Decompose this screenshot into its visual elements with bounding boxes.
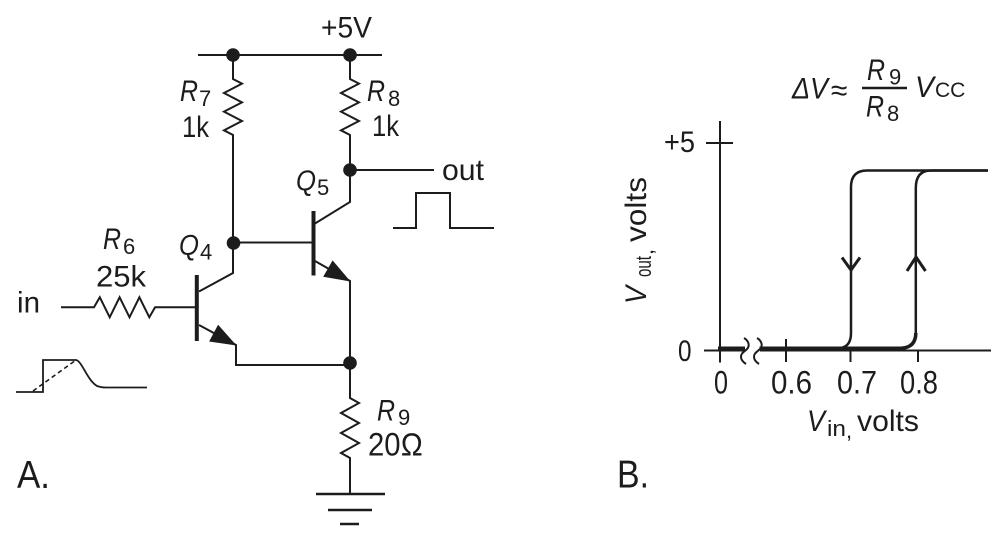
- svg-text:CC: CC: [935, 79, 965, 102]
- svg-text:20Ω: 20Ω: [368, 427, 423, 463]
- svg-text:7: 7: [199, 86, 211, 111]
- svg-text:volts: volts: [620, 177, 653, 242]
- svg-text:0: 0: [714, 365, 728, 401]
- svg-text:V: V: [620, 283, 653, 304]
- svg-text:Q: Q: [179, 230, 199, 262]
- svg-text:out: out: [631, 256, 656, 277]
- svg-text:5: 5: [317, 175, 329, 200]
- svg-text:1k: 1k: [182, 111, 210, 144]
- svg-text:1k: 1k: [372, 110, 400, 143]
- svg-text:R: R: [377, 395, 395, 428]
- svg-text:,: ,: [633, 249, 658, 255]
- svg-text:Q: Q: [296, 166, 316, 198]
- svg-text:0.7: 0.7: [837, 365, 877, 401]
- svg-text:in: in: [827, 416, 846, 441]
- svg-text:V: V: [915, 71, 937, 104]
- svg-text:0: 0: [678, 335, 692, 368]
- svg-text:ΔV: ΔV: [791, 73, 831, 106]
- svg-text:4: 4: [200, 240, 212, 265]
- svg-text:8: 8: [887, 101, 899, 126]
- svg-text:0.6: 0.6: [771, 365, 812, 401]
- svg-text:A.: A.: [17, 454, 50, 497]
- svg-text:,: ,: [846, 418, 852, 443]
- svg-text:R: R: [103, 223, 121, 256]
- svg-text:9: 9: [889, 65, 901, 90]
- svg-text:V: V: [807, 405, 828, 438]
- svg-text:out: out: [442, 154, 485, 187]
- svg-text:R: R: [867, 54, 885, 87]
- svg-text:8: 8: [388, 86, 400, 111]
- svg-text:volts: volts: [857, 405, 919, 438]
- svg-text:6: 6: [123, 234, 135, 259]
- svg-text:R: R: [180, 75, 198, 108]
- svg-text:≈: ≈: [831, 75, 847, 108]
- svg-text:+5: +5: [664, 126, 695, 159]
- svg-text:R: R: [367, 75, 385, 108]
- svg-text:in: in: [17, 287, 40, 320]
- svg-text:B.: B.: [617, 454, 649, 497]
- svg-text:25k: 25k: [96, 261, 147, 294]
- svg-text:R: R: [866, 91, 884, 124]
- svg-text:+5V: +5V: [321, 12, 372, 45]
- svg-text:0.8: 0.8: [900, 365, 938, 401]
